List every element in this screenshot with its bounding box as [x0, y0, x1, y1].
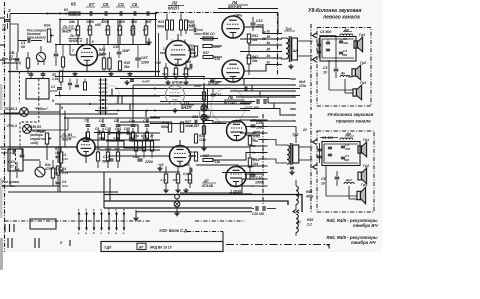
svg-text:6Н2П: 6Н2П — [62, 138, 72, 142]
svg-text:2: 2 — [162, 47, 165, 51]
resistor R17 below rail — [145, 20, 147, 27]
svg-text:R37: R37 — [203, 51, 209, 55]
svg-text:тембра ВЧ: тембра ВЧ — [353, 223, 378, 228]
wire vertical 60 lower — [59, 104, 61, 147]
svg-text:Гр3: Гр3 — [360, 81, 366, 85]
capacitor С12 5800 — [108, 158, 113, 160]
left edge tick 18 — [0, 17, 5, 19]
resistor 1000 mid row — [102, 132, 105, 139]
capacitor С2а input Л1 — [54, 53, 59, 55]
connector box small bottom-left — [30, 219, 56, 229]
wire rail 123 — [150, 123, 226, 125]
svg-text:560к: 560к — [161, 125, 169, 129]
wire У9 internal — [325, 166, 327, 196]
bottom-left tick group — [4, 224, 6, 232]
svg-text:1: 1 — [171, 39, 173, 43]
terminal 3б lower strip — [259, 119, 268, 121]
resistor supply 2 — [202, 126, 205, 134]
wire output right net — [246, 134, 261, 136]
svg-text:Гр1: Гр1 — [359, 33, 365, 37]
svg-text:Р6В: Р6В — [190, 55, 197, 59]
svg-text:220к: 220к — [187, 48, 195, 52]
svg-text:С10: С10 — [8, 160, 15, 164]
resistor 0,01 mid row — [146, 132, 149, 139]
jack symbol bottom — [175, 194, 180, 199]
terminal 3б upper strip — [273, 51, 282, 53]
svg-text:R21: R21 — [158, 20, 164, 24]
resistor R37 3,3к — [203, 56, 213, 59]
svg-text:6Н2П: 6Н2П — [168, 6, 180, 11]
svg-text:С1 300: С1 300 — [322, 136, 333, 140]
svg-text:СG: СG — [118, 2, 125, 7]
scan haze over drawing area — [0, 0, 382, 252]
choke lower У8 — [340, 75, 350, 77]
wire rail 192 — [8, 191, 118, 193]
svg-text:26к: 26к — [68, 20, 76, 24]
terminal 3б lower strip — [259, 132, 268, 134]
resistor R4 2,7к lower column — [56, 166, 59, 175]
speaker box У9 dash-dot outline — [317, 131, 374, 212]
svg-text:4Об: 4Об — [94, 147, 101, 151]
scan bleed-through blob 2 — [103, 86, 120, 105]
svg-text:Ю: Ю — [64, 8, 68, 12]
ground Л3 — [174, 108, 176, 110]
svg-text:1к: 1к — [75, 28, 79, 32]
svg-text:220: 220 — [187, 154, 193, 158]
capacitor С19 mid — [244, 86, 246, 90]
potentiometer R5/I 2,2 — [296, 214, 298, 232]
faint tube small — [200, 108, 211, 121]
capacitor supply — [211, 93, 216, 95]
wire long rail 95 — [55, 95, 300, 97]
svg-text:30а: 30а — [343, 41, 348, 45]
triode Л2 6Н2П — [166, 41, 191, 66]
resistor R24 — [108, 58, 111, 69]
resistor R16 50а — [118, 61, 121, 70]
svg-text:50к: 50к — [162, 72, 167, 76]
svg-text:Гр2: Гр2 — [363, 164, 369, 168]
ground tone 130 — [129, 72, 131, 74]
capacitor С4 500 — [339, 51, 343, 53]
tube Л1 pins — [86, 38, 88, 45]
capacitor С18 2200 — [137, 158, 142, 160]
transistor Т2 lower — [35, 167, 45, 177]
terminal 3а upper strip — [273, 44, 282, 46]
wire rail2 mid — [130, 132, 160, 134]
capacitor lower input — [20, 154, 25, 156]
capacitor left edge — [7, 14, 9, 19]
svg-text:в: в — [115, 231, 117, 235]
wire plate rail top — [155, 12, 213, 14]
svg-text:9: 9 — [61, 106, 63, 110]
svg-text:31к: 31к — [253, 162, 259, 166]
dash-dot bottom rail — [5, 220, 151, 222]
svg-text:1Ок: 1Ок — [55, 151, 61, 155]
capacitor С3 30а — [339, 40, 343, 42]
wire rail 140-160 bundle — [100, 149, 160, 151]
svg-text:6: 6 — [184, 39, 186, 43]
wire rail2 upper — [94, 132, 130, 134]
terminal 3г upper strip — [273, 33, 282, 35]
capacitor С4а mid row — [131, 124, 136, 126]
svg-text:300: 300 — [345, 147, 350, 151]
wire bottom rail 2 — [104, 201, 288, 205]
wire rail second channel right — [95, 146, 160, 148]
svg-text:д: д — [108, 231, 110, 235]
svg-text:0,04: 0,04 — [54, 171, 60, 175]
svg-text:Ль ГЛ: Ль ГЛ — [69, 34, 81, 38]
wire input vertical — [17, 30, 19, 52]
wire mid row bottom — [80, 139, 160, 141]
svg-text:б: б — [93, 231, 95, 235]
capacitor С27 100 — [256, 99, 258, 104]
svg-text:К5: К5 — [71, 2, 76, 7]
capacitor СВ mid row — [116, 124, 121, 126]
svg-text:R2к: R2к — [44, 24, 51, 28]
wire shield vertical left — [9, 24, 11, 147]
wire lower strip to Тр2 — [268, 140, 283, 146]
svg-text:6: 6 — [92, 40, 94, 44]
left edge tick 60 — [0, 59, 5, 61]
svg-text:6П14Б: 6П14Б — [202, 184, 214, 188]
resistor Т2б — [61, 57, 64, 67]
ground comb — [135, 210, 137, 216]
svg-text:С9: С9 — [95, 127, 99, 131]
resistor R37b 3,3к — [203, 159, 213, 162]
svg-text:6Н2П: 6Н2П — [181, 105, 191, 110]
resistor R4а lower — [51, 168, 54, 178]
choke Др У9 coil — [340, 138, 353, 140]
wire vertical 133 — [132, 85, 134, 119]
wire vertical 60 — [59, 20, 61, 46]
terminal strip dash-dot upper — [277, 12, 279, 76]
resistor R21 560к — [166, 20, 169, 30]
capacitor С2 left column У8 — [318, 38, 320, 58]
svg-text:4: 4 — [79, 39, 82, 43]
svg-text:9: 9 — [52, 99, 54, 103]
transistor Т1 — [36, 52, 45, 61]
wire box corner vertical — [222, 232, 224, 242]
capacitor С5 У8 — [334, 68, 339, 70]
resistor supply 1 — [202, 92, 205, 100]
fuse symbol X1 — [201, 105, 207, 111]
svg-text:С13: С13 — [256, 19, 262, 23]
capacitor С21 0047 — [194, 120, 196, 125]
svg-text:6П14Б: 6П14Б — [208, 82, 219, 86]
capacitor С25 1000 — [251, 124, 256, 126]
resistor R1а — [26, 58, 29, 68]
svg-text:2,2: 2,2 — [306, 223, 312, 227]
svg-text:2200: 2200 — [144, 160, 153, 164]
terminal 5б lower strip — [259, 145, 268, 147]
svg-text:ЯРД ВК 19 13: ЯРД ВК 19 13 — [149, 246, 172, 250]
ground tone 75 — [74, 72, 76, 74]
svg-text:R4/I: R4/I — [306, 190, 312, 194]
svg-text:470к: 470к — [298, 84, 306, 88]
svg-text:Ш6: Ш6 — [293, 49, 298, 53]
svg-text:Гр3: Гр3 — [361, 183, 367, 187]
svg-text:С21: С21 — [192, 115, 198, 119]
unit boundary dash-dot left edge — [4, 2, 6, 252]
tube Л1б pins — [85, 132, 87, 138]
connector arrow upper 2 — [313, 57, 317, 62]
svg-text:27: 27 — [149, 134, 154, 138]
svg-text:10: 10 — [321, 182, 325, 186]
ground Л2 cathode 2 — [185, 80, 187, 82]
resistor R29 560к — [168, 122, 171, 132]
svg-text:С1 500: С1 500 — [320, 30, 331, 34]
resistor 700а mid row — [87, 132, 90, 139]
resistor R22 540к — [102, 58, 105, 69]
ground jack — [176, 211, 178, 213]
scan bleed-through blob 1 — [211, 88, 245, 124]
connector arrow upper 1 — [313, 33, 317, 38]
triode Л1 6Н2П — [77, 45, 98, 66]
transformer Тр1 pins — [281, 37, 286, 39]
svg-text:3е: 3е — [267, 61, 271, 65]
svg-text:С4: С4 — [99, 119, 103, 123]
svg-text:ЛН6,3: ЛН6,3 — [6, 124, 17, 128]
capacitor С3 004 lower — [59, 169, 64, 171]
svg-text:Гр1: Гр1 — [363, 138, 369, 142]
unit boundary dash-dot right — [310, 24, 312, 110]
svg-text:540а: 540а — [99, 52, 107, 56]
wire long rail 78 — [120, 78, 290, 80]
volume gang lower box — [8, 149, 23, 171]
wire output tubes net — [244, 26, 258, 28]
capacitor С16 150Р — [117, 51, 122, 53]
gang lower centerline — [15, 150, 17, 171]
connector arrow lower 2 — [313, 165, 317, 170]
svg-text:к5б: к5б — [95, 23, 102, 27]
svg-text:Л5: Л5 — [210, 78, 215, 82]
wire long rail 85 — [133, 84, 290, 86]
capacitor С4 mid row — [101, 124, 106, 126]
capacitor С3 lower column — [56, 155, 61, 157]
wire lamp feed — [5, 112, 20, 114]
volume pot box upper — [26, 79, 49, 100]
svg-text:Д7: Д7 — [203, 179, 210, 183]
ground Тр1 — [290, 64, 292, 66]
svg-text:1000: 1000 — [255, 181, 263, 185]
svg-text:д: д — [108, 208, 110, 212]
unit boundary vertical 155 — [155, 14, 157, 78]
svg-text:0,047: 0,047 — [184, 67, 192, 71]
capacitor С15 coupling — [193, 28, 195, 33]
svg-text:БП14Б: БП14Б — [172, 81, 183, 85]
svg-text:"Рубин": "Рубин" — [34, 107, 48, 111]
triode Л1б lower channel — [77, 138, 95, 156]
svg-text:3а: 3а — [267, 41, 271, 45]
ground supply — [203, 146, 205, 148]
svg-text:1000: 1000 — [129, 136, 136, 140]
resistor 0,01 mid row — [117, 132, 120, 139]
wire Тр2 to box — [305, 146, 313, 148]
capacitor above gang box 2 — [41, 73, 46, 75]
capacitor С6 series — [133, 11, 135, 16]
wire step bundle upper — [117, 20, 119, 46]
resistor R32 220к h — [203, 45, 212, 48]
svg-text:0,047: 0,047 — [50, 89, 58, 93]
svg-text:8б: 8б — [252, 157, 256, 161]
svg-text:2838: 2838 — [193, 84, 201, 88]
wire supply second vertical — [207, 88, 209, 108]
wire bottom vertical feeds — [103, 172, 105, 208]
capacitor С2 right of gang — [57, 87, 62, 89]
wire rail 76 — [55, 76, 205, 78]
capacitor С9 series — [104, 11, 106, 16]
wire bundle termination ticks — [290, 78, 296, 80]
wire rail second channel left — [8, 146, 77, 148]
crossover box У8 — [320, 37, 356, 62]
wire bundle to upper terminals — [258, 27, 273, 34]
pentode Л5 6П14П — [222, 16, 244, 38]
svg-text:(лев.канал): (лев.канал) — [27, 36, 46, 40]
resistor R2 right of gang — [59, 71, 62, 82]
connector comb bottom — [78, 212, 80, 230]
svg-text:1,2а: 1,2а — [52, 77, 58, 81]
svg-text:С6: С6 — [132, 2, 138, 7]
wire Тр1 to box — [305, 40, 313, 42]
capacitor ground near Тр2 — [290, 166, 294, 168]
capacitor lamp area 2 — [75, 84, 79, 86]
capacitor С3 У9 — [341, 145, 345, 147]
wire staircase b — [110, 133, 152, 141]
wire supply column — [203, 83, 205, 150]
svg-text:1500?: 1500? — [194, 32, 203, 36]
ground Л4 cathode 3 — [177, 188, 179, 190]
svg-text:правого канала: правого канала — [336, 119, 371, 124]
wire bottom rail 3 — [104, 207, 252, 209]
svg-text:150Р: 150Р — [122, 49, 130, 53]
svg-text:Ль В1: Ль В1 — [61, 133, 72, 137]
svg-text:С5: С5 — [321, 177, 325, 181]
svg-text:10Ок: 10Ок — [185, 178, 193, 182]
svg-text:10к: 10к — [172, 72, 177, 76]
resistor R18 below rail — [119, 20, 121, 27]
svg-text:ЕТ: ЕТ — [89, 2, 95, 7]
capacitor С1б series rail2 — [107, 130, 109, 135]
svg-text:100к: 100к — [182, 72, 189, 76]
capacitor С14 series rail2 — [117, 130, 119, 135]
wire Л4 grid long — [108, 155, 170, 157]
potentiometer R4/I 400к — [296, 186, 298, 204]
capacitor С28 100 bottom — [255, 206, 257, 211]
connector arrow lower 1 — [313, 140, 317, 145]
wire lower input — [9, 147, 11, 160]
svg-text:0,01: 0,01 — [143, 136, 149, 140]
svg-text:500: 500 — [342, 53, 347, 57]
wire grid net Л1 — [69, 45, 71, 55]
wire row 44 — [55, 44, 150, 46]
wire rail 101 — [160, 101, 255, 103]
svg-text:С15: С15 — [189, 23, 195, 27]
wire rail 117 — [150, 116, 259, 118]
resistor lamp area — [84, 82, 87, 90]
svg-text:0,047: 0,047 — [142, 80, 150, 84]
svg-text:У9-Колонка звуковая: У9-Колонка звуковая — [327, 112, 374, 117]
wire top rail A — [47, 13, 157, 15]
svg-text:проб.ж.: проб.ж. — [1, 151, 12, 155]
resistor R40 30к — [248, 136, 251, 145]
svg-text:Др2: Др2 — [345, 178, 352, 182]
terminal 3а lower strip — [259, 126, 268, 128]
terminal 8б lower strip — [259, 158, 268, 160]
capacitor lamp area 1 — [68, 82, 72, 84]
wire preamp to output — [200, 38, 218, 40]
svg-text:(лев.канал): (лев.канал) — [2, 61, 22, 65]
resistor R13 below rail — [89, 20, 91, 27]
svg-text:Я7: Я7 — [138, 246, 143, 250]
svg-text:R38: R38 — [204, 115, 210, 119]
resistor R26 120к — [194, 134, 197, 143]
pentode Л6 6П14П — [222, 60, 244, 82]
svg-text:+240в: +240в — [233, 14, 242, 18]
svg-text:3г: 3г — [267, 30, 271, 34]
tube Л2 pins — [177, 34, 179, 41]
triode Л4 6Н2П lower — [170, 146, 191, 167]
resistor К5 on rail — [69, 12, 80, 15]
crossover box У9 — [322, 142, 360, 166]
svg-text:левого канала: левого канала — [322, 15, 360, 21]
terminal 3д upper strip — [273, 38, 282, 40]
scan smudge left edge — [0, 84, 3, 110]
wire long rail 88 — [115, 88, 300, 90]
capacitor С4 У9 — [341, 156, 345, 158]
terminal 8а lower strip — [259, 152, 268, 154]
terminal а lower strip — [259, 165, 268, 167]
wire top rail B — [60, 19, 157, 21]
terminal 5а lower strip — [259, 139, 268, 141]
svg-text:Т7: Т7 — [84, 119, 88, 123]
svg-text:Др: Др — [340, 71, 345, 75]
svg-text:б: б — [85, 208, 87, 212]
resistor R5 10к lower — [59, 152, 62, 163]
capacitor С1б mid row — [145, 124, 150, 126]
ground rail2 — [159, 166, 161, 168]
svg-text:7: 7 — [72, 49, 74, 53]
capacitor СКТ 2200 — [135, 57, 140, 59]
pentode Л7 6П14П — [227, 121, 247, 141]
svg-text:ЛО1б,3: ЛО1б,3 — [4, 107, 17, 111]
wire bottom rail 1 — [104, 195, 302, 213]
wire bundle to lower terminals — [226, 120, 259, 122]
wire transistor link — [23, 159, 40, 161]
wire rail2 bottom — [60, 171, 180, 173]
svg-text:СКТ: СКТ — [141, 56, 149, 60]
triode Л3 faint — [166, 86, 185, 105]
svg-text:80Г: 80Г — [146, 20, 153, 24]
pentode Л8 6П14П — [226, 167, 246, 187]
svg-text:С4б: С4б — [124, 127, 131, 131]
resistor 1000 below rail2 — [107, 133, 109, 152]
svg-text:R5/I: R5/I — [307, 218, 313, 222]
resistor 4Об below rail2 — [97, 133, 99, 152]
svg-text:10: 10 — [323, 71, 327, 75]
svg-text:С25: С25 — [256, 121, 262, 125]
svg-text:400к: 400к — [305, 195, 314, 199]
bottom connector box — [101, 242, 223, 252]
svg-text:С20: С20 — [185, 60, 191, 64]
resistor R41 30к — [247, 34, 250, 43]
terminal 3е upper strip — [273, 64, 282, 66]
resistor R23 220к — [194, 46, 197, 56]
svg-text:+10: +10 — [155, 61, 161, 65]
junction dots on rails — [59, 13, 61, 15]
terminal в lower strip — [259, 178, 268, 180]
wire bottom rail 4 — [136, 211, 252, 213]
wire staircase verticals — [111, 89, 113, 96]
